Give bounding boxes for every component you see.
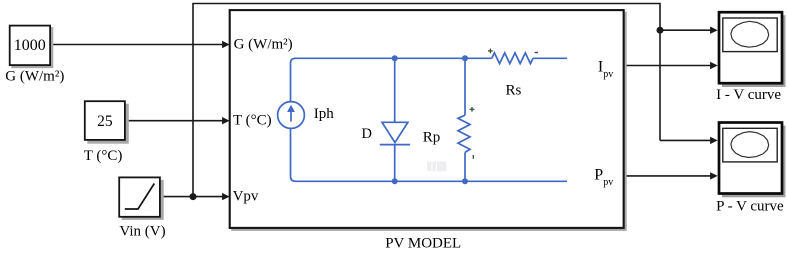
polarity plus Rp xyxy=(470,107,475,112)
node top diode xyxy=(392,55,398,61)
constant block 1000 xyxy=(10,26,54,69)
wire bottom rail xyxy=(291,128,568,181)
svg-text:G (W/m²): G (W/m²) xyxy=(234,36,293,52)
svg-text:Vin (V): Vin (V) xyxy=(119,224,165,240)
svg-text:G (W/m²): G (W/m²) xyxy=(5,68,64,84)
svg-text:1000: 1000 xyxy=(14,37,46,54)
resistor Rp xyxy=(458,58,470,181)
wire top rail left xyxy=(291,58,492,101)
watermark xyxy=(427,162,446,172)
scope I-V curve xyxy=(719,12,786,87)
junction Vpv/scope1 xyxy=(657,27,664,34)
current source Iph xyxy=(278,102,305,129)
wire G constant to PV model xyxy=(51,41,230,48)
constant block 25 xyxy=(85,101,129,144)
resistor Rs xyxy=(492,53,533,64)
svg-text:Iph: Iph xyxy=(314,106,334,122)
polarity minus Rp xyxy=(472,155,474,159)
junction Vin/Vpv xyxy=(190,193,197,200)
svg-text:T (°C): T (°C) xyxy=(84,148,123,164)
wire Vin to PV model xyxy=(161,193,230,200)
svg-text:I - V curve: I - V curve xyxy=(716,87,781,103)
ramp block Vin xyxy=(119,177,164,220)
svg-text:D: D xyxy=(362,126,372,142)
wire Vpv feedback to scopes xyxy=(193,4,660,197)
wire T constant to PV model xyxy=(126,117,230,124)
svg-text:Rp: Rp xyxy=(423,129,441,145)
svg-text:Vpv: Vpv xyxy=(233,188,259,204)
subsystem PV MODEL xyxy=(230,10,627,231)
wire top rail right xyxy=(533,57,567,59)
svg-text:T (°C): T (°C) xyxy=(233,112,272,128)
svg-text:25: 25 xyxy=(97,113,113,130)
polarity plus Rs xyxy=(488,49,493,54)
diode D xyxy=(380,58,410,181)
wire Ppv to P-V scope xyxy=(625,172,718,179)
polarity minus Rs xyxy=(535,52,538,54)
svg-text:P - V curve: P - V curve xyxy=(716,199,784,215)
node top Rp xyxy=(462,55,468,61)
wire Ipv to I-V scope xyxy=(625,62,718,69)
scope P-V curve xyxy=(719,123,786,198)
svg-text:PV MODEL: PV MODEL xyxy=(385,235,461,251)
node bottom Rp xyxy=(462,178,468,184)
wire Vpv branch to I-V scope xyxy=(660,27,718,34)
node bottom diode xyxy=(392,178,398,184)
svg-text:Rs: Rs xyxy=(506,82,522,98)
wire Vpv elbow to P-V scope xyxy=(660,137,718,144)
